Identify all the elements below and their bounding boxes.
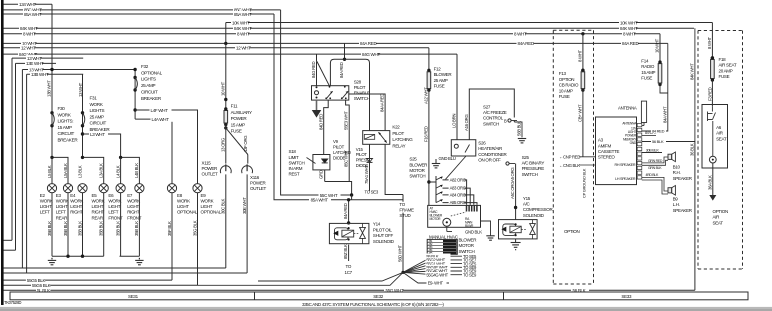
svg-text:LIGHTS:: LIGHTS: <box>58 119 74 124</box>
svg-text:FRAME: FRAME <box>399 208 414 213</box>
svg-text:10 WHT: 10 WHT <box>655 38 660 53</box>
svg-text:35G BLK: 35G BLK <box>192 220 197 236</box>
svg-text:E7: E7 <box>127 193 133 198</box>
svg-text:TO: TO <box>399 202 405 207</box>
svg-text:OUTLET: OUTLET <box>202 172 219 177</box>
svg-text:X115: X115 <box>202 160 212 165</box>
svg-text:FUSE: FUSE <box>641 76 652 81</box>
svg-text:BREAKER: BREAKER <box>141 96 162 101</box>
svg-text:F30: F30 <box>58 106 66 111</box>
svg-text:A/C FREEZE: A/C FREEZE <box>483 110 507 115</box>
svg-text:E5: E5 <box>92 193 98 198</box>
svg-text:LIGHTS: LIGHTS <box>90 108 105 113</box>
svg-text:20 AMP: 20 AMP <box>719 68 733 73</box>
svg-text:84K WHT: 84K WHT <box>20 26 38 31</box>
svg-text:WORK: WORK <box>56 199 69 204</box>
svg-text:55G4G WHT: 55G4G WHT <box>426 272 448 277</box>
svg-text:WORK: WORK <box>108 199 121 204</box>
svg-text:SEAT: SEAT <box>716 136 727 141</box>
svg-text:PILOT: PILOT <box>392 131 404 136</box>
svg-text:DIODE: DIODE <box>333 155 346 160</box>
svg-text:LIGHT: LIGHT <box>56 204 68 209</box>
svg-text:ON OR OFF: ON OR OFF <box>478 158 501 163</box>
svg-text:S27: S27 <box>483 104 491 109</box>
svg-text:GRD: GRD <box>319 170 324 179</box>
svg-text:35B BLK: 35B BLK <box>47 221 52 236</box>
svg-text:F14: F14 <box>641 59 649 64</box>
svg-text:L4A WHT: L4A WHT <box>152 117 170 122</box>
svg-text:SHUT OFF: SHUT OFF <box>373 233 394 238</box>
svg-text:S28: S28 <box>354 79 362 84</box>
svg-text:REAR: REAR <box>56 215 68 220</box>
svg-text:MOTOR: MOTOR <box>409 168 425 173</box>
svg-text:30B BLK: 30B BLK <box>646 148 660 152</box>
svg-text:PRESSURE: PRESSURE <box>522 166 545 171</box>
svg-text:OPTIONAL: OPTIONAL <box>201 210 222 215</box>
svg-text:F11: F11 <box>231 104 238 109</box>
svg-text:10K WHT: 10K WHT <box>232 20 250 25</box>
svg-text:8 WHT: 8 WHT <box>237 32 250 37</box>
svg-text:35B BLK: 35B BLK <box>63 221 68 236</box>
svg-text:84A RED: 84A RED <box>339 62 344 78</box>
svg-text:30E WHT: 30E WHT <box>242 197 247 214</box>
svg-text:LH SPEAKER: LH SPEAKER <box>615 177 636 181</box>
svg-text:75A1 WHT: 75A1 WHT <box>364 165 369 184</box>
svg-text:SWITCH: SWITCH <box>483 121 499 126</box>
svg-text:1C7: 1C7 <box>345 270 353 275</box>
svg-text:LIGHT: LIGHT <box>92 204 104 209</box>
svg-text:LIGHT: LIGHT <box>201 204 213 209</box>
svg-text:OPTION: OPTION <box>713 209 729 214</box>
svg-text:134 WHT: 134 WHT <box>19 2 36 7</box>
svg-text:←CNP RED: ←CNP RED <box>559 155 580 160</box>
svg-text:A5C ORG: A5C ORG <box>510 181 515 199</box>
svg-text:Y15: Y15 <box>523 196 531 201</box>
svg-text:56 BLK: 56 BLK <box>652 139 664 144</box>
svg-text:WORK: WORK <box>177 199 190 204</box>
svg-text:CIRCUIT: CIRCUIT <box>141 89 158 94</box>
svg-text:12 WHT: 12 WHT <box>236 46 251 51</box>
svg-text:POWER: POWER <box>250 180 267 185</box>
svg-text:FUSE: FUSE <box>434 84 445 89</box>
svg-text:A5 ORG: A5 ORG <box>510 167 515 182</box>
svg-text:TO SE3: TO SE3 <box>365 190 379 195</box>
svg-text:F12: F12 <box>434 66 442 71</box>
svg-text:84D RED: 84D RED <box>318 114 323 130</box>
svg-text:SWITCH: SWITCH <box>409 174 425 179</box>
svg-text:IN ARM: IN ARM <box>289 166 303 171</box>
svg-text:CONTROL: CONTROL <box>483 116 504 121</box>
svg-text:F31: F31 <box>90 96 98 101</box>
svg-text:13 WHT: 13 WHT <box>78 82 83 97</box>
svg-text:BREAKER: BREAKER <box>58 138 79 143</box>
svg-text:OPTION: OPTION <box>564 229 580 234</box>
svg-text:15 AMP: 15 AMP <box>641 70 655 75</box>
svg-text:OPTION: OPTION <box>559 77 575 82</box>
svg-text:STEREO: STEREO <box>598 155 616 160</box>
svg-text:E6: E6 <box>108 193 114 198</box>
svg-text:CIRCUIT: CIRCUIT <box>58 131 75 136</box>
svg-text:S25: S25 <box>409 157 417 162</box>
svg-text:GND BLU: GND BLU <box>439 156 456 161</box>
svg-text:F3 RED: F3 RED <box>707 87 712 101</box>
svg-text:LATCHED: LATCHED <box>333 150 351 155</box>
svg-text:10 WHT: 10 WHT <box>220 81 225 96</box>
svg-text:F32: F32 <box>141 64 149 69</box>
svg-text:84K WHT: 84K WHT <box>620 26 638 31</box>
svg-text:A/C: A/C <box>523 202 531 207</box>
svg-text:35B BLK: 35B BLK <box>99 221 104 236</box>
svg-text:84A RED: 84A RED <box>343 203 348 219</box>
svg-text:13F ORG: 13F ORG <box>243 135 248 152</box>
svg-text:35B BLK: 35B BLK <box>134 221 139 236</box>
svg-text:WORK: WORK <box>40 199 53 204</box>
svg-text:MANUAL HVAC: MANUAL HVAC <box>429 234 459 239</box>
svg-text:RADIO: RADIO <box>641 64 655 69</box>
svg-text:OUTLET: OUTLET <box>250 186 267 191</box>
svg-text:BLOWER: BLOWER <box>409 162 428 167</box>
svg-text:WORK: WORK <box>127 199 140 204</box>
svg-text:85A WHT: 85A WHT <box>311 198 329 203</box>
svg-text:PILOT: PILOT <box>356 152 368 157</box>
svg-text:84 RED: 84 RED <box>652 128 665 133</box>
svg-text:30C BLK: 30C BLK <box>220 198 225 214</box>
svg-text:E3: E3 <box>56 193 62 198</box>
svg-text:LIMIT: LIMIT <box>289 155 300 160</box>
svg-text:R.H.: R.H. <box>673 170 681 175</box>
svg-text:ANTENNA: ANTENNA <box>622 121 637 125</box>
svg-text:S25: S25 <box>522 155 530 160</box>
svg-text:K22: K22 <box>392 125 400 130</box>
svg-text:SOLENOID: SOLENOID <box>523 213 545 218</box>
svg-text:35B BLK: 35B BLK <box>77 221 82 236</box>
svg-text:LEFT: LEFT <box>40 210 50 215</box>
svg-text:FUSE: FUSE <box>719 74 730 79</box>
svg-text:LIGHTS: LIGHTS <box>141 77 156 82</box>
svg-text:WORK: WORK <box>201 199 214 204</box>
svg-text:S18: S18 <box>289 149 297 154</box>
svg-text:SPEAKER: SPEAKER <box>673 176 693 181</box>
svg-text:F18: F18 <box>719 57 727 62</box>
svg-text:25 AMP: 25 AMP <box>90 114 105 119</box>
svg-text:13B WHT: 13B WHT <box>31 72 49 77</box>
svg-text:12 WHT: 12 WHT <box>21 46 36 51</box>
svg-text:84A RED: 84A RED <box>622 41 639 46</box>
svg-text:84G RED: 84G RED <box>311 62 316 78</box>
svg-text:56B BLK: 56B BLK <box>517 121 522 136</box>
svg-text:84A RED: 84A RED <box>360 41 377 46</box>
svg-text:LO BRN: LO BRN <box>452 114 457 128</box>
svg-text:AIR: AIR <box>716 131 724 136</box>
svg-text:CP GROUND BLK: CP GROUND BLK <box>581 168 586 198</box>
svg-text:SE33: SE33 <box>621 294 632 299</box>
svg-text:S26: S26 <box>478 141 486 146</box>
svg-text:E8: E8 <box>177 193 183 198</box>
svg-text:GRN BLK: GRN BLK <box>648 166 662 170</box>
svg-text:13B WHT: 13B WHT <box>47 80 52 97</box>
svg-text:8 WHT: 8 WHT <box>514 32 527 37</box>
svg-text:85A WHT: 85A WHT <box>234 12 252 17</box>
svg-text:A12 WHT: A12 WHT <box>423 87 428 104</box>
svg-text:V15: V15 <box>356 147 364 152</box>
svg-text:GND BLK: GND BLK <box>465 229 482 234</box>
svg-text:A/C BINARY: A/C BINARY <box>522 161 545 166</box>
svg-text:Y14: Y14 <box>373 222 381 227</box>
svg-text:LEFT: LEFT <box>56 210 66 215</box>
svg-text:8 WHT: 8 WHT <box>707 36 712 49</box>
svg-text:SOLENOID: SOLENOID <box>373 239 395 244</box>
svg-text:SWITCH: SWITCH <box>354 96 370 101</box>
svg-text:WORK: WORK <box>90 102 104 107</box>
svg-text:84A WHT: 84A WHT <box>663 106 668 123</box>
svg-text:MOTOR: MOTOR <box>430 217 442 221</box>
svg-text:10 AMP: 10 AMP <box>559 88 573 93</box>
svg-text:PILOT OIL: PILOT OIL <box>373 227 393 232</box>
svg-text:POWER: POWER <box>231 116 248 121</box>
svg-text:SWITCH: SWITCH <box>289 160 305 165</box>
svg-text:25 AMP: 25 AMP <box>141 83 156 88</box>
svg-text:LIGHT: LIGHT <box>40 204 52 209</box>
svg-text:LIGHT: LIGHT <box>177 204 189 209</box>
svg-text:CIRCUIT: CIRCUIT <box>90 121 107 126</box>
svg-text:SE32: SE32 <box>373 294 384 299</box>
svg-text:84AA RED: 84AA RED <box>380 94 385 112</box>
svg-text:8 WHT: 8 WHT <box>578 49 583 62</box>
svg-text:WORK: WORK <box>92 199 105 204</box>
svg-text:POWER: POWER <box>202 166 219 171</box>
svg-text:←CNG BLK: ←CNG BLK <box>559 163 580 168</box>
svg-text:84G WHT: 84G WHT <box>362 52 380 57</box>
svg-text:85Z BLK: 85Z BLK <box>343 244 348 259</box>
svg-text:PILOT: PILOT <box>333 145 345 150</box>
svg-text:ENABLE: ENABLE <box>354 91 370 96</box>
svg-text:MOTOR: MOTOR <box>459 243 475 248</box>
svg-text:55E3 WHT: 55E3 WHT <box>344 111 349 130</box>
svg-text:35B BLK: 35B BLK <box>115 221 120 236</box>
svg-text:25 AMP: 25 AMP <box>434 78 448 83</box>
svg-text:85A WHT: 85A WHT <box>24 12 42 17</box>
svg-text:CB+ WHT: CB+ WHT <box>578 104 583 122</box>
svg-text:LIGHT: LIGHT <box>108 204 120 209</box>
svg-text:L4B BLK: L4B BLK <box>134 163 139 178</box>
svg-text:RIGHT: RIGHT <box>127 210 140 215</box>
svg-text:F16 RED: F16 RED <box>423 126 428 142</box>
svg-text:A84 ORG: A84 ORG <box>450 193 466 198</box>
svg-text:36A BLK: 36A BLK <box>707 175 712 190</box>
svg-text:LATCHING: LATCHING <box>392 137 413 142</box>
svg-text:RH SPEAKER: RH SPEAKER <box>615 163 636 167</box>
svg-text:AM/FM: AM/FM <box>598 143 612 148</box>
svg-text:84K WHT: 84K WHT <box>234 26 252 31</box>
svg-text:STUD: STUD <box>399 213 411 218</box>
svg-text:SE31: SE31 <box>128 294 139 299</box>
svg-text:GRN RED: GRN RED <box>648 159 663 163</box>
svg-text:AIR: AIR <box>713 215 721 220</box>
svg-text:CASSETTE: CASSETTE <box>598 149 620 154</box>
svg-text:10K WHT: 10K WHT <box>620 20 638 25</box>
svg-text:ANTENNA: ANTENNA <box>618 105 637 110</box>
svg-text:AUXILIARY: AUXILIARY <box>231 110 252 115</box>
svg-text:L.H.: L.H. <box>673 202 680 207</box>
svg-text:E9- WHT: E9- WHT <box>428 281 444 286</box>
svg-text:GND: GND <box>630 141 637 145</box>
svg-text:A85 ORG: A85 ORG <box>450 200 466 205</box>
svg-text:SEAT: SEAT <box>713 220 724 225</box>
svg-text:L3 WHT: L3 WHT <box>90 132 105 137</box>
svg-text:SPEAKER: SPEAKER <box>673 208 693 213</box>
svg-text:FUSE: FUSE <box>559 94 570 99</box>
svg-text:REAR: REAR <box>92 215 104 220</box>
svg-text:56D WHT: 56D WHT <box>398 245 403 262</box>
svg-text:REST: REST <box>289 172 300 177</box>
svg-text:A3: A3 <box>598 138 604 143</box>
svg-text:L3 BLK: L3 BLK <box>77 165 82 178</box>
svg-text:OPTIONAL: OPTIONAL <box>141 70 163 75</box>
svg-text:TK07528D: TK07528D <box>4 300 22 305</box>
svg-text:LIGHT: LIGHT <box>127 204 139 209</box>
svg-text:4RD BLK: 4RD BLK <box>646 173 660 177</box>
svg-text:L5A BLK: L5A BLK <box>63 163 68 178</box>
svg-text:RIGHT: RIGHT <box>92 210 105 215</box>
svg-text:WORK: WORK <box>70 199 83 204</box>
svg-text:13E WHT: 13E WHT <box>26 61 44 66</box>
svg-text:A83 ORG: A83 ORG <box>450 186 466 191</box>
svg-text:WORK: WORK <box>58 112 72 117</box>
svg-text:A16 ORG: A16 ORG <box>464 114 469 131</box>
svg-text:8 WHT: 8 WHT <box>23 32 36 37</box>
svg-text:BLOWER: BLOWER <box>434 72 453 77</box>
svg-text:X116: X116 <box>250 175 260 180</box>
svg-text:LIGHT: LIGHT <box>70 204 82 209</box>
svg-text:13 WHT: 13 WHT <box>27 56 42 61</box>
svg-text:CONDITIONER: CONDITIONER <box>478 152 507 157</box>
svg-text:B9: B9 <box>673 196 679 201</box>
svg-text:LEFT: LEFT <box>108 210 118 215</box>
svg-text:E4: E4 <box>70 193 76 198</box>
svg-text:FUSE: FUSE <box>231 129 242 134</box>
svg-text:A82 ORG: A82 ORG <box>450 178 466 183</box>
svg-text:BLOWER: BLOWER <box>459 237 478 242</box>
svg-text:15 AMP: 15 AMP <box>231 122 246 127</box>
svg-text:E2: E2 <box>40 193 46 198</box>
svg-text:CB RADIO: CB RADIO <box>559 83 579 88</box>
svg-text:OPTIONAL: OPTIONAL <box>177 210 198 215</box>
svg-text:15 AMP: 15 AMP <box>58 125 73 130</box>
svg-text:E9: E9 <box>201 193 207 198</box>
svg-text:HEATER/AIR: HEATER/AIR <box>478 146 503 151</box>
svg-text:8 WHT: 8 WHT <box>623 32 636 37</box>
svg-text:84K WHT: 84K WHT <box>690 63 695 80</box>
svg-text:TO SE9: TO SE9 <box>463 272 477 277</box>
svg-text:L5 BLK: L5 BLK <box>47 165 52 178</box>
svg-text:13 ORG: 13 ORG <box>220 137 225 152</box>
svg-text:L4 BLK: L4 BLK <box>115 165 120 178</box>
svg-text:36 BLK: 36 BLK <box>690 143 695 156</box>
svg-text:RELAY: RELAY <box>392 143 405 148</box>
svg-text:COMPRESSOR: COMPRESSOR <box>523 207 554 212</box>
svg-text:AIR SEAT: AIR SEAT <box>719 63 737 68</box>
svg-text:PILOT: PILOT <box>354 85 366 90</box>
svg-text:A6: A6 <box>716 125 722 130</box>
svg-text:L4F WHT: L4F WHT <box>151 108 169 113</box>
svg-text:84A RED: 84A RED <box>518 41 535 46</box>
svg-text:SWITCH: SWITCH <box>522 172 538 177</box>
svg-text:BLWR: BLWR <box>465 224 474 228</box>
svg-text:RIGHT: RIGHT <box>70 210 83 215</box>
svg-text:L3A BLK: L3A BLK <box>99 163 104 178</box>
svg-text:TO: TO <box>346 264 352 269</box>
svg-text:35F BLK: 35F BLK <box>167 221 172 236</box>
svg-text:F13: F13 <box>559 71 567 76</box>
svg-text:335C AND 437C SYSTEM FUNCTIONA: 335C AND 437C SYSTEM FUNCTIONAL SCHEMATI… <box>302 302 444 307</box>
svg-text:B10: B10 <box>673 165 681 170</box>
